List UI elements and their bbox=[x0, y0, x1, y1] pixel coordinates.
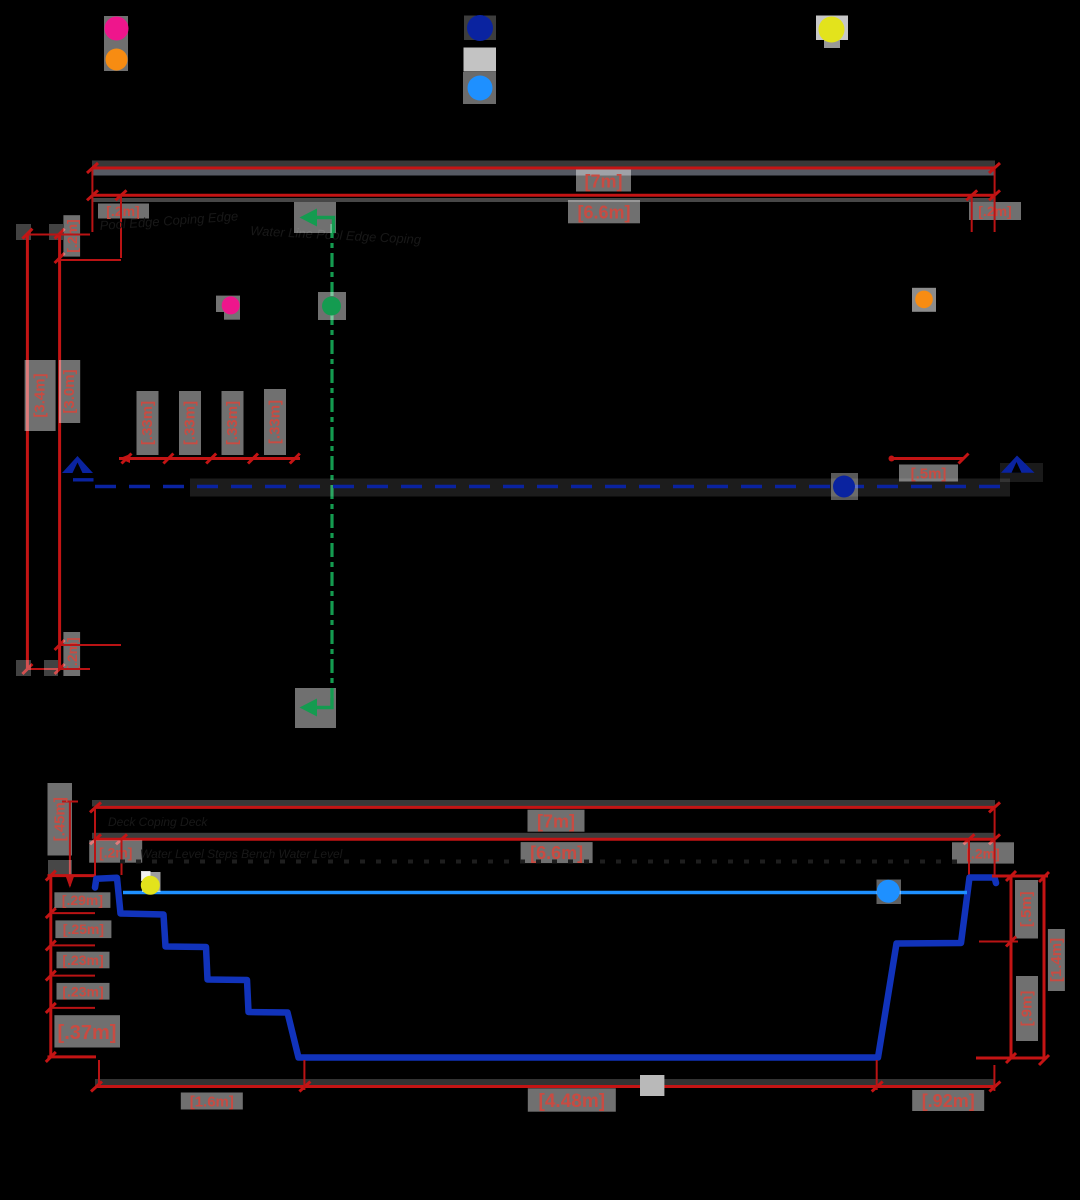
water level symbol right plan bbox=[1000, 463, 1043, 482]
label .5m box right bbox=[1015, 880, 1038, 939]
label .2m section left bbox=[89, 840, 142, 862]
step label .33m 2 rotated bbox=[179, 391, 201, 455]
bottom dim connector verticals bbox=[98, 1060, 100, 1087]
legend marker navy dot background bbox=[464, 16, 496, 41]
legend marker dodger blue dot background bbox=[463, 72, 496, 104]
label .2m plan left bbox=[98, 204, 149, 219]
dimension line .5m plan bbox=[892, 457, 964, 460]
label 4.48m bottom bbox=[528, 1088, 616, 1111]
svg-text:[.37m]: [.37m] bbox=[58, 1022, 117, 1044]
green section line dashed bbox=[330, 224, 333, 698]
svg-text:[.2m]: [.2m] bbox=[64, 219, 80, 252]
right chain dimension section bbox=[1010, 876, 1013, 1058]
legend marker yellow dot background bbox=[816, 16, 848, 41]
hidden text band above 7m line bbox=[92, 161, 995, 167]
extension line right deck bbox=[992, 875, 1048, 878]
green bottom arrow background bbox=[295, 688, 336, 728]
label .92m bottom bbox=[912, 1090, 984, 1111]
navy dot plan background bbox=[831, 473, 858, 500]
svg-text:[.25m]: [.25m] bbox=[63, 921, 104, 937]
legend marker magenta dot bbox=[105, 17, 129, 41]
extension line plan left y669 bbox=[27, 668, 90, 670]
label .23m section b bbox=[57, 983, 110, 1000]
label 1.6m bottom bbox=[181, 1093, 243, 1110]
label 6.6m plan bbox=[568, 200, 640, 223]
gray tick boxes plan bottom-left bbox=[16, 660, 31, 676]
svg-text:[.9m]: [.9m] bbox=[1019, 991, 1036, 1027]
svg-text:[.23m]: [.23m] bbox=[62, 952, 103, 968]
dimension chain line .2m 6.6m .2m plan bbox=[92, 194, 994, 197]
svg-text:[.92m]: [.92m] bbox=[922, 1091, 975, 1111]
svg-text:[.33m]: [.33m] bbox=[139, 401, 156, 445]
extension line plan left y234 bbox=[27, 234, 90, 236]
water level symbol left plan bbox=[62, 456, 93, 473]
label .23m section a bbox=[57, 952, 110, 969]
water line section bbox=[123, 891, 967, 895]
hidden text band below 7m line bbox=[92, 170, 995, 176]
extension line right bottom bbox=[976, 1057, 1046, 1060]
extension lines step levels left bbox=[51, 912, 95, 914]
navy dot plan bbox=[833, 476, 855, 498]
green top arrow background bbox=[294, 202, 336, 233]
dimension line 7m plan bbox=[92, 167, 994, 170]
svg-text:[.33m]: [.33m] bbox=[182, 401, 199, 445]
yellow dot section bbox=[141, 876, 160, 895]
svg-text:[.33m]: [.33m] bbox=[224, 401, 241, 445]
svg-text:[1.6m]: [1.6m] bbox=[190, 1094, 234, 1111]
blue dashed water edge line plan bbox=[95, 485, 1010, 489]
svg-text:[.5m]: [.5m] bbox=[911, 466, 947, 483]
extension verticals section top bbox=[94, 807, 96, 875]
svg-text:[.23m]: [.23m] bbox=[62, 984, 103, 1000]
svg-text:[6.6m]: [6.6m] bbox=[577, 203, 630, 223]
label 7m section bbox=[528, 810, 585, 832]
orange dot plan bbox=[915, 291, 933, 309]
faint band behind waterline dashes bbox=[190, 479, 1010, 497]
extension line plan top-left outer bbox=[91, 168, 93, 232]
hidden text band above 6.6m section line bbox=[92, 833, 995, 839]
orange dot plan background bbox=[912, 288, 936, 312]
svg-text:[.45m]: [.45m] bbox=[51, 797, 68, 841]
hidden text band below 6.6m line bbox=[92, 198, 995, 202]
legend marker yellow dot bbox=[819, 17, 845, 43]
label 7m plan bbox=[576, 170, 631, 192]
label .37m section large bbox=[54, 1015, 120, 1047]
svg-text:Deck Coping Deck: Deck Coping Deck bbox=[108, 815, 208, 829]
dimension line 7m section bbox=[95, 806, 995, 809]
extension line plan top-right outer bbox=[994, 168, 996, 232]
legend marker navy dot bbox=[467, 15, 493, 41]
svg-text:[4.48m]: [4.48m] bbox=[539, 1091, 606, 1112]
yellow dot section background bbox=[142, 872, 161, 892]
label 1.4m rotated right outer bbox=[1048, 929, 1065, 991]
legend marker silver square bbox=[464, 48, 497, 72]
svg-text:[.29m]: [.29m] bbox=[62, 892, 103, 908]
blue dot section background bbox=[877, 880, 902, 905]
gray tick boxes plan top-left bbox=[16, 224, 31, 240]
gray tick box left chain top bbox=[48, 860, 72, 875]
left chain dimension section bbox=[49, 876, 52, 1057]
hidden text band above 7m section line bbox=[92, 800, 995, 807]
vertical dimension chain line .2m 3m .2m plan inner bbox=[58, 234, 61, 669]
step dimension line plan bbox=[119, 457, 300, 460]
label .29m section bbox=[54, 892, 110, 908]
extension line plan left y258 bbox=[60, 259, 121, 261]
svg-text:[.2m]: [.2m] bbox=[99, 845, 132, 861]
hidden band above bottom dimension bbox=[95, 1079, 995, 1086]
label .2m rotated top bbox=[63, 215, 80, 256]
left tall dimension .45m section bbox=[69, 802, 71, 887]
step label .33m 1 rotated bbox=[137, 391, 159, 455]
legend marker dodger blue dot bbox=[468, 76, 493, 101]
svg-text:Water Level Steps Bench Wat: Water Level Steps Bench Water Level bbox=[140, 847, 343, 861]
svg-text:[7m]: [7m] bbox=[537, 812, 575, 832]
hidden dashes row section bbox=[120, 860, 960, 864]
svg-text:[.33m]: [.33m] bbox=[267, 400, 284, 444]
label .45m rotated section bbox=[48, 783, 73, 856]
green top arrow bbox=[313, 218, 334, 234]
svg-text:[7m]: [7m] bbox=[584, 172, 622, 192]
green bottom arrow bbox=[313, 688, 332, 708]
extension line right ledge bbox=[979, 941, 1018, 943]
blue dot section bbox=[877, 880, 900, 903]
step label .33m 4 rotated bbox=[264, 389, 286, 455]
step label .33m 3 rotated bbox=[222, 391, 244, 455]
gray square marker section bbox=[640, 1075, 664, 1096]
svg-text:[3.0m]: [3.0m] bbox=[61, 369, 78, 413]
extension line plan left y645 bbox=[60, 644, 121, 646]
label 6.6m section bbox=[521, 842, 593, 863]
extension line deck level left bbox=[48, 874, 97, 877]
pink dot plan background bbox=[216, 296, 240, 312]
extension line plan top-right inner bbox=[971, 195, 973, 232]
label .9m box right bbox=[1016, 976, 1038, 1041]
green section dot bbox=[318, 292, 346, 320]
extension line plan top-left inner bbox=[120, 195, 122, 258]
legend marker orange dot bbox=[106, 49, 128, 71]
dimension chain .2m 6.6m .2m section bbox=[95, 838, 995, 841]
bottom dimension line section bbox=[96, 1085, 994, 1088]
pool profile section bbox=[95, 878, 996, 1058]
svg-text:[.5m]: [.5m] bbox=[1018, 891, 1035, 927]
label .2m plan right bbox=[969, 202, 1021, 220]
label .2m section right bbox=[952, 842, 1014, 863]
label .2m rotated bottom bbox=[63, 632, 80, 676]
vertical dimension line 3.4m plan outer bbox=[26, 234, 29, 669]
svg-text:[.2m]: [.2m] bbox=[64, 637, 80, 670]
legend group 1 background bbox=[104, 16, 128, 71]
label 3.4m rotated bbox=[25, 360, 56, 431]
svg-text:[3.4m]: [3.4m] bbox=[32, 373, 49, 417]
pink dot plan bbox=[222, 296, 240, 314]
label 3m rotated bbox=[59, 360, 80, 423]
right outer dimension section bbox=[1043, 877, 1046, 1060]
svg-text:[1.4m]: [1.4m] bbox=[1048, 938, 1065, 982]
label .25m section bbox=[55, 920, 111, 938]
label .5m plan bbox=[899, 465, 958, 482]
